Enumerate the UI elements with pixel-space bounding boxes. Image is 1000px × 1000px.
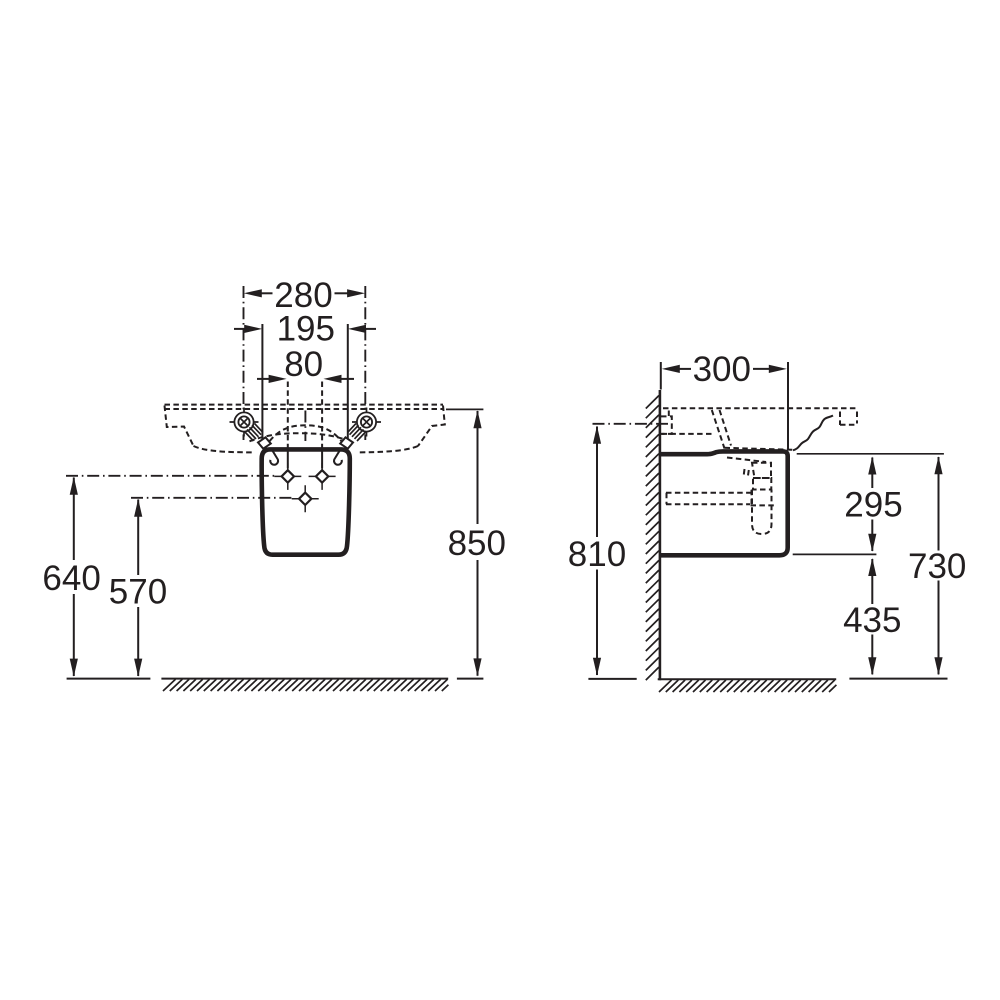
extension line dashed left (80) (287, 382, 289, 448)
semi-pedestal side outline (660, 451, 788, 555)
dim 730 line (938, 457, 940, 674)
tap hole stub right (321, 449, 323, 468)
svg-text:300: 300 (693, 350, 751, 389)
extension line pedestal bottom (793, 553, 877, 555)
basin side bowl front wavy slope (793, 416, 833, 451)
svg-text:295: 295 (844, 486, 902, 525)
dim 570 line (137, 500, 139, 677)
clip bracket right (340, 437, 353, 448)
bowl inner rim arc (265, 425, 347, 448)
dim 850 line (477, 411, 479, 676)
trap mid body (753, 478, 771, 490)
wall bolt side view (661, 416, 672, 434)
ground hatch band right view (658, 678, 837, 680)
tap hole stub left (287, 449, 289, 468)
clip bracket left (258, 437, 271, 448)
svg-text:850: 850 (448, 524, 506, 563)
svg-text:195: 195 (277, 310, 335, 349)
dim 80 line and arrows (269, 375, 287, 383)
svg-text:810: 810 (568, 535, 626, 574)
extension line left (195) (261, 324, 263, 448)
clip hatch right (348, 423, 367, 441)
trap tailpiece (752, 463, 771, 478)
svg-text:730: 730 (908, 547, 966, 586)
basin side front lip (840, 412, 857, 426)
basin centre line (304, 411, 306, 442)
trap nut line (751, 504, 775, 506)
ground line left view (67, 678, 151, 680)
dim 280 line and arrows (244, 289, 262, 297)
ground hatch band left view (161, 678, 448, 680)
dim 810 line (596, 427, 598, 676)
dim 850 ticks (446, 408, 483, 410)
target mark upper-left (274, 463, 301, 490)
dim 810 bottom tick (588, 678, 636, 680)
svg-text:640: 640 (42, 559, 100, 598)
basin front underside right (357, 446, 418, 452)
svg-text:435: 435 (843, 601, 901, 640)
dim 295 line (871, 458, 873, 552)
fixing bolt left (230, 408, 259, 437)
extension line 300 left (660, 362, 662, 390)
basin side bowl back slope (712, 410, 731, 449)
hanger hook right (334, 450, 342, 465)
waste outlet slope (727, 458, 766, 463)
dim 640 line (73, 478, 75, 677)
svg-text:80: 80 (284, 345, 323, 384)
trap elbow marks (744, 469, 749, 477)
extension line 300 right (787, 362, 789, 450)
basin side top dashed edge (663, 407, 857, 409)
extension line dashed right (80) (321, 382, 323, 448)
semi-pedestal front outline (262, 449, 350, 554)
basin front underside left (194, 446, 253, 452)
basin front outline top double dashed edge (165, 404, 444, 406)
bowl outer rim arc (250, 433, 351, 441)
basin side back recess (662, 411, 712, 434)
waste pipe to wall (666, 490, 752, 505)
fixing bolt right (352, 408, 381, 437)
target mark upper-right (309, 463, 336, 490)
trap U-bend (752, 490, 772, 535)
extension line right (195) (347, 324, 349, 448)
wall hatch (646, 396, 659, 681)
ground line right view (849, 678, 947, 680)
dash-dot leader 570 level (131, 497, 292, 499)
clip hatch left (245, 423, 264, 441)
dim 435 line (871, 559, 873, 674)
semi-pedestal side fill (660, 451, 788, 555)
dash-dot leader 810 level (593, 423, 669, 425)
extension line dash-dot right (280) (364, 286, 366, 440)
basin side bowl bottom (725, 448, 794, 450)
basin front outline right edge (418, 406, 445, 447)
wall line (659, 390, 662, 680)
svg-text:570: 570 (109, 572, 167, 611)
extension line pedestal top (797, 453, 944, 455)
basin front outline left edge (165, 406, 194, 447)
hanger hook left (270, 450, 278, 465)
dim 195 line and arrows (244, 325, 262, 333)
target mark lower-centre (292, 485, 319, 512)
extension line dash-dot left (280) (243, 286, 245, 440)
dim 300 line and arrows (662, 365, 680, 373)
dash-dot leader 640 level (66, 475, 275, 477)
